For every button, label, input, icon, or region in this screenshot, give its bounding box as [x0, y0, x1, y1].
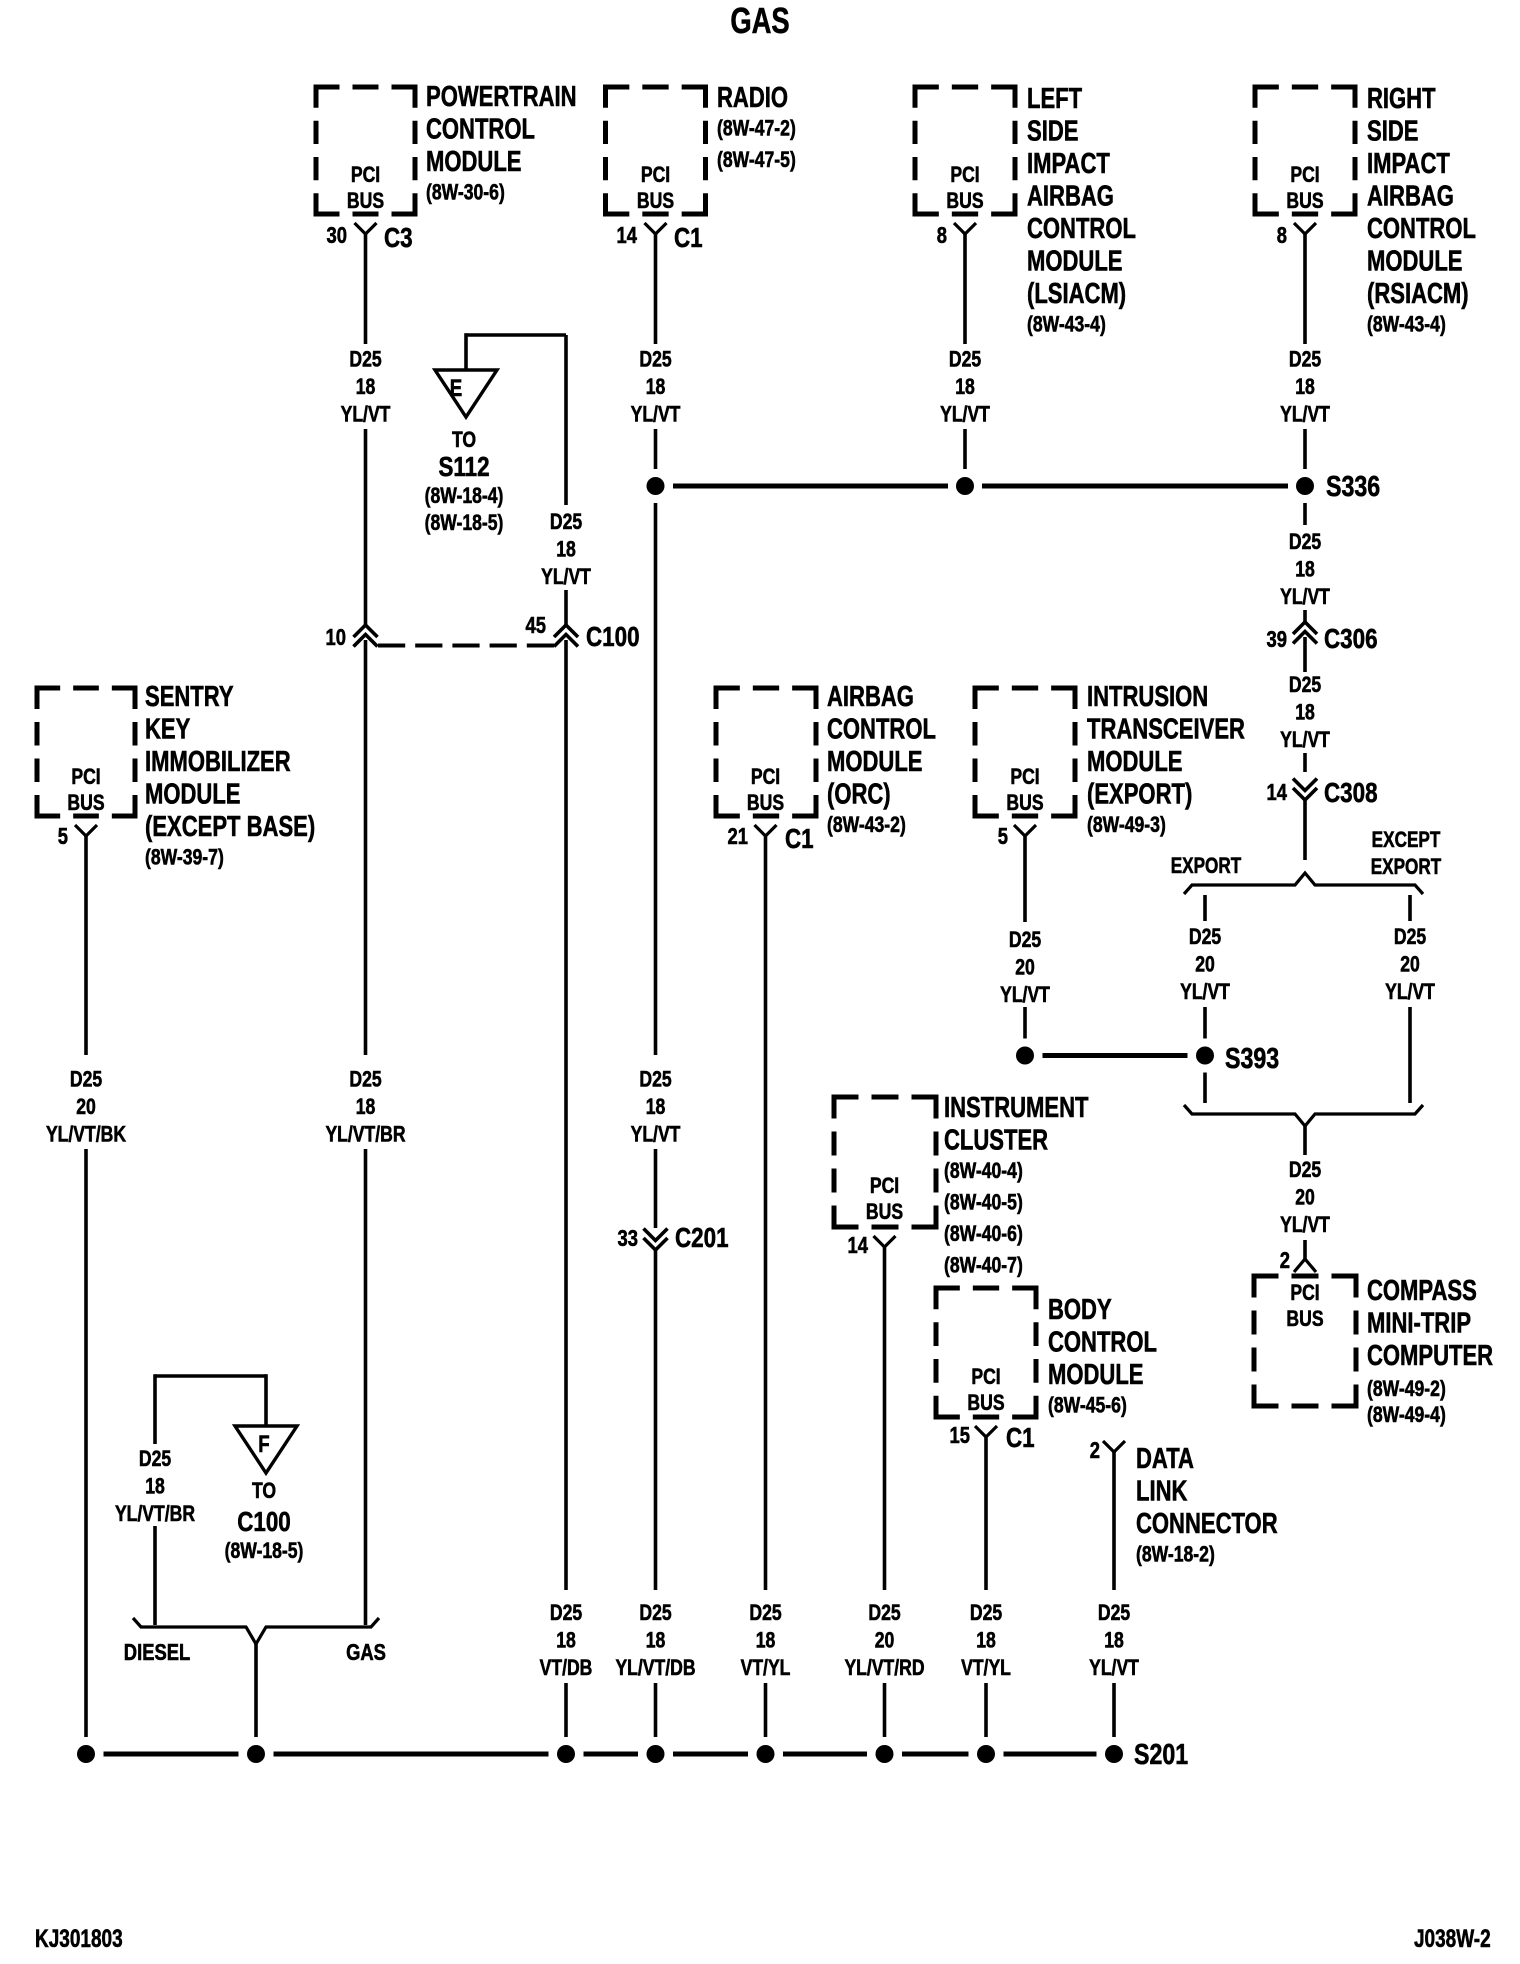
- svg-text:COMPUTER: COMPUTER: [1367, 1340, 1493, 1372]
- svg-text:IMMOBILIZER: IMMOBILIZER: [145, 746, 291, 778]
- svg-text:IMPACT: IMPACT: [1027, 148, 1110, 180]
- svg-text:YL/VT: YL/VT: [1089, 1656, 1139, 1680]
- svg-text:8: 8: [937, 223, 947, 248]
- svg-text:(EXPORT): (EXPORT): [1087, 779, 1192, 811]
- brace split below C308: [1184, 873, 1423, 894]
- connector pin Y at Radio: [645, 223, 667, 234]
- svg-text:(8W-40-7): (8W-40-7): [944, 1254, 1023, 1278]
- svg-text:VT/DB: VT/DB: [540, 1656, 593, 1680]
- svg-text:PCI: PCI: [971, 1365, 1000, 1389]
- svg-text:18: 18: [646, 1629, 666, 1653]
- svg-text:14: 14: [617, 223, 638, 248]
- svg-text:MODULE: MODULE: [1087, 746, 1182, 778]
- svg-text:D25: D25: [1009, 928, 1041, 952]
- svg-text:(8W-49-4): (8W-49-4): [1367, 1403, 1446, 1427]
- svg-text:18: 18: [556, 538, 576, 562]
- svg-text:EXCEPT: EXCEPT: [1372, 828, 1441, 853]
- label EXPORT (left option): [1171, 854, 1242, 879]
- svg-text:YL/VT: YL/VT: [1280, 1213, 1330, 1237]
- svg-text:MODULE: MODULE: [1027, 246, 1122, 278]
- label DIESEL: [124, 1640, 191, 1665]
- label PCI BUS (cluster): [866, 1174, 903, 1224]
- wire label D25 20 YL/VT (except export): [1385, 925, 1435, 1004]
- wire PCM label to GAS brace: [364, 1149, 368, 1625]
- label PCI BUS (PCM): [347, 163, 384, 213]
- splice S336 bus line: [673, 484, 1288, 489]
- wire intrusion pin down: [1023, 836, 1027, 922]
- wire label D25 20 YL/VT/BK: [46, 1068, 127, 1147]
- connector C100 chevron pin 10: [354, 625, 378, 647]
- module Airbag Control Module box: [714, 686, 819, 819]
- connector pin Y at RSIACM: [1294, 223, 1316, 234]
- svg-text:D25: D25: [949, 348, 981, 372]
- svg-text:(8W-40-4): (8W-40-4): [944, 1159, 1023, 1183]
- svg-text:(8W-30-6): (8W-30-6): [426, 181, 505, 205]
- wire except-export to join brace: [1408, 1007, 1412, 1103]
- svg-text:14: 14: [1267, 780, 1288, 805]
- svg-text:D25: D25: [1289, 1158, 1321, 1182]
- label GAS (branch): [346, 1640, 386, 1665]
- junction dot S393 at export branch: [1196, 1047, 1214, 1065]
- svg-text:D25: D25: [1289, 673, 1321, 697]
- svg-text:D25: D25: [349, 1068, 381, 1092]
- svg-text:(8W-47-5): (8W-47-5): [717, 148, 796, 172]
- svg-text:D25: D25: [970, 1601, 1002, 1625]
- svg-text:(EXCEPT BASE): (EXCEPT BASE): [145, 811, 315, 843]
- module Radio box: [603, 85, 708, 217]
- wire below C100 pin 10: [364, 640, 368, 1055]
- svg-text:YL/VT: YL/VT: [1385, 980, 1435, 1004]
- label TO S112: [425, 428, 504, 535]
- svg-text:D25: D25: [550, 510, 582, 534]
- junction dot S201 at ORC: [757, 1745, 775, 1763]
- svg-text:INSTRUMENT: INSTRUMENT: [944, 1092, 1089, 1124]
- wire C308 to split brace: [1303, 800, 1307, 860]
- svg-text:YL/VT: YL/VT: [1280, 728, 1330, 752]
- svg-text:BODY: BODY: [1048, 1294, 1112, 1326]
- wire E-branch horizontal: [466, 333, 566, 337]
- svg-text:RADIO: RADIO: [717, 82, 788, 114]
- svg-text:(8W-43-4): (8W-43-4): [1367, 313, 1446, 337]
- svg-text:2: 2: [1280, 1248, 1290, 1273]
- pin number 14 (cluster): [848, 1233, 869, 1258]
- svg-text:PCI: PCI: [1290, 163, 1319, 187]
- svg-text:20: 20: [1015, 956, 1035, 980]
- module LSIACM name text: [1027, 83, 1136, 337]
- connector C201 label: [675, 1223, 729, 1254]
- connector Y at data link connector: [1103, 1441, 1125, 1452]
- pin number 14: [617, 223, 638, 248]
- wire label D25 18 YL/VT (above C308): [1280, 673, 1330, 752]
- module BCM name text: [1048, 1294, 1157, 1418]
- svg-text:20: 20: [875, 1629, 895, 1653]
- wire below C100 pin 45: [564, 640, 568, 1590]
- svg-text:10: 10: [326, 625, 346, 650]
- wire F-branch left down: [153, 1374, 157, 1444]
- connector C201 chevron pin 33: [644, 1229, 668, 1251]
- wire DLC label to S201: [1112, 1683, 1116, 1737]
- wire VT/DB to S201: [564, 1683, 568, 1737]
- svg-text:GAS: GAS: [730, 0, 789, 41]
- junction dot S201 at sentry: [77, 1745, 95, 1763]
- svg-text:YL/VT/BK: YL/VT/BK: [46, 1123, 127, 1147]
- svg-text:S336: S336: [1326, 469, 1380, 502]
- svg-text:YL/VT/RD: YL/VT/RD: [844, 1656, 924, 1680]
- svg-text:D25: D25: [139, 1447, 171, 1471]
- svg-text:BUS: BUS: [946, 189, 983, 213]
- wire S336 down to label: [1303, 503, 1307, 525]
- svg-text:D25: D25: [550, 1601, 582, 1625]
- pin number 10: [326, 625, 346, 650]
- svg-text:(8W-39-7): (8W-39-7): [145, 846, 224, 870]
- svg-text:45: 45: [526, 613, 546, 638]
- svg-text:BUS: BUS: [866, 1200, 903, 1224]
- svg-text:TO: TO: [452, 428, 476, 452]
- wire C100 column upper: [564, 335, 568, 505]
- svg-text:C1: C1: [674, 223, 703, 254]
- junction dot S336 at LSIACM: [956, 477, 974, 495]
- svg-text:YL/VT: YL/VT: [541, 565, 591, 589]
- svg-text:INTRUSION: INTRUSION: [1087, 681, 1208, 713]
- connector pin Y at BCM: [975, 1426, 997, 1437]
- svg-text:39: 39: [1267, 627, 1287, 652]
- svg-text:VT/YL: VT/YL: [741, 1656, 791, 1680]
- svg-text:(8W-45-6): (8W-45-6): [1048, 1394, 1127, 1418]
- svg-text:PCI: PCI: [950, 163, 979, 187]
- svg-text:(8W-18-5): (8W-18-5): [225, 1539, 304, 1563]
- pin number 5 (sentry): [58, 824, 68, 849]
- wire label D25 18 VT/YL (ORC): [741, 1601, 791, 1680]
- svg-text:18: 18: [556, 1629, 576, 1653]
- svg-text:D25: D25: [749, 1601, 781, 1625]
- wire PCM pin to label: [364, 234, 368, 344]
- svg-text:5: 5: [998, 824, 1008, 849]
- module Intrusion Transceiver box: [973, 686, 1078, 819]
- wire BCM pin down: [984, 1437, 988, 1590]
- svg-text:PCI: PCI: [870, 1174, 899, 1198]
- junction dot S201 at BCM: [977, 1745, 995, 1763]
- wire label D25 18 VT/DB: [540, 1601, 593, 1680]
- svg-text:18: 18: [145, 1475, 165, 1499]
- connector pin Y at sentry: [75, 825, 97, 836]
- svg-text:14: 14: [848, 1233, 869, 1258]
- svg-text:18: 18: [756, 1629, 776, 1653]
- wire label D25 18 YL/VT (Radio mid): [631, 1068, 681, 1147]
- wire label D25 20 YL/VT (compass): [1280, 1158, 1330, 1237]
- svg-text:BUS: BUS: [1286, 1307, 1323, 1331]
- module Intrusion name text: [1087, 681, 1245, 837]
- svg-text:2: 2: [1090, 1438, 1100, 1463]
- wire label D25 18 YL/VT/BR (PCM): [325, 1068, 405, 1147]
- pin number 2 (compass): [1280, 1248, 1290, 1273]
- wire ORC pin down: [764, 836, 768, 1590]
- wire cluster label to S201: [883, 1683, 887, 1737]
- module RSIACM name text: [1367, 83, 1476, 337]
- svg-text:YL/VT: YL/VT: [1280, 585, 1330, 609]
- connector pin Y-up at compass: [1294, 1259, 1316, 1272]
- svg-text:C100: C100: [586, 622, 640, 653]
- wire Radio below S336 down: [654, 503, 658, 1055]
- module LSIACM box: [913, 85, 1018, 217]
- svg-text:18: 18: [1295, 375, 1315, 399]
- junction dot S336 at Radio: [647, 477, 665, 495]
- svg-text:30: 30: [327, 223, 347, 248]
- wire cluster pin down: [883, 1247, 887, 1590]
- svg-text:AIRBAG: AIRBAG: [1367, 181, 1454, 213]
- wire export branch upper: [1203, 895, 1207, 921]
- module Instrument Cluster box: [832, 1095, 939, 1230]
- svg-text:POWERTRAIN: POWERTRAIN: [426, 81, 577, 113]
- svg-text:CLUSTER: CLUSTER: [944, 1125, 1048, 1157]
- module Compass name text: [1367, 1275, 1493, 1427]
- wire label D25 18 YL/VT/BR (diesel): [115, 1447, 195, 1526]
- svg-text:(8W-18-2): (8W-18-2): [1136, 1543, 1215, 1567]
- svg-text:TRANSCEIVER: TRANSCEIVER: [1087, 714, 1245, 746]
- svg-text:YL/VT: YL/VT: [631, 1123, 681, 1147]
- svg-text:CONTROL: CONTROL: [1027, 213, 1136, 245]
- wire label to compass pin: [1303, 1240, 1307, 1259]
- svg-text:C308: C308: [1324, 778, 1378, 809]
- connector C1 label (BCM): [1006, 1423, 1035, 1454]
- svg-text:(8W-49-2): (8W-49-2): [1367, 1377, 1446, 1401]
- label PCI BUS (LSIACM): [946, 163, 983, 213]
- wire F-branch horizontal: [155, 1374, 266, 1378]
- connector C308 label: [1324, 778, 1378, 809]
- connector pin Y at LSIACM: [954, 223, 976, 234]
- svg-text:C3: C3: [384, 223, 413, 254]
- svg-text:CONTROL: CONTROL: [1367, 213, 1476, 245]
- module PCM name text: [426, 81, 577, 205]
- svg-text:18: 18: [1295, 558, 1315, 582]
- svg-text:20: 20: [76, 1095, 96, 1119]
- pin number 39: [1267, 627, 1287, 652]
- connector pin Y at intrusion: [1014, 825, 1036, 836]
- svg-text:YL/VT/BR: YL/VT/BR: [325, 1123, 405, 1147]
- connector C308 chevron pin 14: [1293, 779, 1317, 801]
- svg-text:D25: D25: [1189, 925, 1221, 949]
- svg-text:YL/VT: YL/VT: [631, 403, 681, 427]
- wire ORC label to S201: [764, 1683, 768, 1737]
- module Sentry Key Immobilizer box: [35, 686, 138, 819]
- wire sentry pin down: [84, 836, 88, 1055]
- svg-text:DIESEL: DIESEL: [124, 1640, 191, 1665]
- svg-text:MINI-TRIP: MINI-TRIP: [1367, 1308, 1471, 1340]
- svg-text:(8W-47-2): (8W-47-2): [717, 117, 796, 141]
- svg-text:LEFT: LEFT: [1027, 83, 1082, 115]
- svg-text:D25: D25: [868, 1601, 900, 1625]
- svg-text:EXPORT: EXPORT: [1171, 854, 1242, 879]
- connector C100 label: [586, 622, 640, 653]
- label PCI BUS (intrusion): [1006, 765, 1043, 815]
- svg-text:BUS: BUS: [1006, 791, 1043, 815]
- svg-text:YL/VT: YL/VT: [1180, 980, 1230, 1004]
- wire RSIACM label to S336: [1303, 429, 1307, 469]
- svg-text:CONTROL: CONTROL: [827, 714, 936, 746]
- svg-text:YL/VT/BR: YL/VT/BR: [115, 1502, 195, 1526]
- svg-text:SIDE: SIDE: [1027, 116, 1078, 148]
- svg-text:F: F: [258, 1431, 269, 1458]
- svg-text:CONTROL: CONTROL: [1048, 1327, 1157, 1359]
- splice S393 bus line: [1043, 1053, 1188, 1058]
- svg-text:5: 5: [58, 824, 68, 849]
- label TO C100: [225, 1479, 304, 1563]
- wire diesel label to brace: [153, 1526, 157, 1625]
- wire label D25 18 YL/VT (RSIACM): [1280, 348, 1330, 427]
- wire label D25 18 YL/VT (Radio): [631, 348, 681, 427]
- pin number 8 (RSIACM): [1277, 223, 1287, 248]
- svg-text:EXPORT: EXPORT: [1371, 855, 1442, 880]
- svg-text:(8W-49-3): (8W-49-3): [1087, 813, 1166, 837]
- svg-text:(RSIACM): (RSIACM): [1367, 278, 1469, 310]
- svg-text:C1: C1: [1006, 1423, 1035, 1454]
- svg-text:TO: TO: [252, 1479, 276, 1503]
- svg-text:BUS: BUS: [747, 791, 784, 815]
- svg-text:VT/YL: VT/YL: [961, 1656, 1011, 1680]
- wire except-export branch upper: [1408, 895, 1412, 921]
- wire export label to S393: [1203, 1007, 1207, 1039]
- svg-text:BUS: BUS: [637, 189, 674, 213]
- svg-text:C100: C100: [237, 1507, 291, 1538]
- label PCI BUS (RSIACM): [1286, 163, 1323, 213]
- connector C306 label: [1324, 624, 1378, 655]
- module DLC name text: [1136, 1443, 1278, 1567]
- brace join above compass: [1184, 1105, 1423, 1126]
- wire sentry label to S201: [84, 1149, 88, 1737]
- off-page connector F: [235, 1426, 297, 1473]
- label PCI BUS (sentry): [67, 765, 104, 815]
- pin number 21: [728, 824, 748, 849]
- pin number 14 (C308): [1267, 780, 1288, 805]
- wire above C100 pin 45: [564, 590, 568, 625]
- splice S336 label: [1326, 469, 1380, 502]
- connector C1 label (radio): [674, 223, 703, 254]
- svg-text:(8W-40-5): (8W-40-5): [944, 1191, 1023, 1215]
- module RSIACM box: [1253, 85, 1358, 217]
- svg-text:D25: D25: [639, 1601, 671, 1625]
- svg-text:18: 18: [646, 1095, 666, 1119]
- module Powertrain Control Module box: [314, 85, 418, 217]
- label EXCEPT EXPORT (right option): [1371, 828, 1442, 880]
- connector C1 label (ORC): [785, 824, 814, 855]
- svg-text:D25: D25: [349, 348, 381, 372]
- svg-text:BUS: BUS: [1286, 189, 1323, 213]
- svg-text:15: 15: [950, 1423, 970, 1448]
- svg-text:GAS: GAS: [346, 1640, 386, 1665]
- junction dot S201 at C100col: [557, 1745, 575, 1763]
- svg-text:33: 33: [618, 1226, 638, 1251]
- svg-text:KJ301803: KJ301803: [35, 1924, 123, 1952]
- module Body Control Module box: [934, 1286, 1039, 1420]
- svg-text:MODULE: MODULE: [426, 146, 521, 178]
- junction dot S201 at radio: [647, 1745, 665, 1763]
- svg-text:D25: D25: [1394, 925, 1426, 949]
- svg-text:YL/VT: YL/VT: [1280, 403, 1330, 427]
- wire label D25 20 YL/VT/RD: [844, 1601, 924, 1680]
- pin number 33: [618, 1226, 638, 1251]
- svg-text:MODULE: MODULE: [1048, 1359, 1143, 1391]
- wire DLC down: [1112, 1452, 1116, 1590]
- splice S201 label: [1134, 1737, 1188, 1770]
- svg-text:CONTROL: CONTROL: [426, 114, 535, 146]
- junction dot S336 at RSIACM: [1296, 477, 1314, 495]
- junction dot S201 at DLC: [1105, 1745, 1123, 1763]
- brace diesel/gas: [133, 1618, 379, 1644]
- svg-text:DATA: DATA: [1136, 1443, 1194, 1475]
- svg-text:18: 18: [1104, 1629, 1124, 1653]
- wire LSIACM label to S336: [963, 429, 967, 469]
- wire PCM label to C100: [364, 429, 368, 625]
- footer sheet id KJ301803: [35, 1924, 123, 1952]
- wire export S393 to join brace: [1203, 1073, 1207, 1104]
- svg-text:20: 20: [1295, 1186, 1315, 1210]
- wire LSIACM pin to label: [963, 234, 967, 344]
- wire Radio label to S336: [654, 429, 658, 469]
- wire label D25 20 YL/VT (export): [1180, 925, 1230, 1004]
- svg-text:LINK: LINK: [1136, 1476, 1188, 1508]
- junction dot S201 at cluster: [876, 1745, 894, 1763]
- svg-text:18: 18: [976, 1629, 996, 1653]
- title GAS: [730, 0, 789, 41]
- svg-text:18: 18: [356, 375, 376, 399]
- label PCI BUS (compass): [1286, 1281, 1323, 1331]
- svg-text:J038W-2: J038W-2: [1414, 1924, 1491, 1952]
- connector C3 label: [384, 223, 413, 254]
- svg-text:8: 8: [1277, 223, 1287, 248]
- connector C100 chevron pin 45: [554, 625, 578, 647]
- svg-text:MODULE: MODULE: [1367, 246, 1462, 278]
- module Compass Mini-Trip box: [1252, 1274, 1359, 1409]
- wire label to C308: [1303, 753, 1307, 772]
- svg-text:(8W-43-2): (8W-43-2): [827, 813, 906, 837]
- svg-text:(ORC): (ORC): [827, 779, 891, 811]
- svg-text:MODULE: MODULE: [827, 746, 922, 778]
- wire brace to label (compass): [1303, 1126, 1307, 1155]
- svg-text:(8W-43-4): (8W-43-4): [1027, 313, 1106, 337]
- wire label D25 18 YL/VT (DLC): [1089, 1601, 1139, 1680]
- pin number 15: [950, 1423, 970, 1448]
- svg-text:D25: D25: [70, 1068, 102, 1092]
- module ORC name text: [827, 681, 936, 837]
- wire RSIACM pin to label: [1303, 234, 1307, 344]
- svg-text:18: 18: [646, 375, 666, 399]
- pin number 30: [327, 223, 347, 248]
- wire label D25 18 VT/YL (BCM): [961, 1601, 1011, 1680]
- svg-text:(8W-18-4): (8W-18-4): [425, 484, 504, 508]
- svg-text:MODULE: MODULE: [145, 779, 240, 811]
- svg-text:SIDE: SIDE: [1367, 116, 1418, 148]
- wire label D25 18 YL/VT (above C306): [1280, 530, 1330, 609]
- module Radio name text: [717, 82, 796, 172]
- wire label D25 18 YL/VT/DB: [615, 1601, 695, 1680]
- svg-text:PCI: PCI: [71, 765, 100, 789]
- svg-text:18: 18: [356, 1095, 376, 1119]
- svg-text:E: E: [450, 375, 462, 402]
- wire intrusion label to S393: [1023, 1007, 1027, 1039]
- svg-text:COMPASS: COMPASS: [1367, 1275, 1477, 1307]
- wire brace to S201: [254, 1644, 258, 1737]
- svg-text:D25: D25: [1289, 530, 1321, 554]
- wire below C201: [654, 1250, 658, 1590]
- svg-text:PCI: PCI: [1290, 1281, 1319, 1305]
- junction dot S201 at diesel/gas: [247, 1745, 265, 1763]
- svg-text:PCI: PCI: [351, 163, 380, 187]
- svg-text:BUS: BUS: [967, 1391, 1004, 1415]
- svg-text:C1: C1: [785, 824, 814, 855]
- svg-text:18: 18: [1295, 701, 1315, 725]
- pin number 5 (intrusion): [998, 824, 1008, 849]
- svg-text:D25: D25: [639, 348, 671, 372]
- svg-text:PCI: PCI: [641, 163, 670, 187]
